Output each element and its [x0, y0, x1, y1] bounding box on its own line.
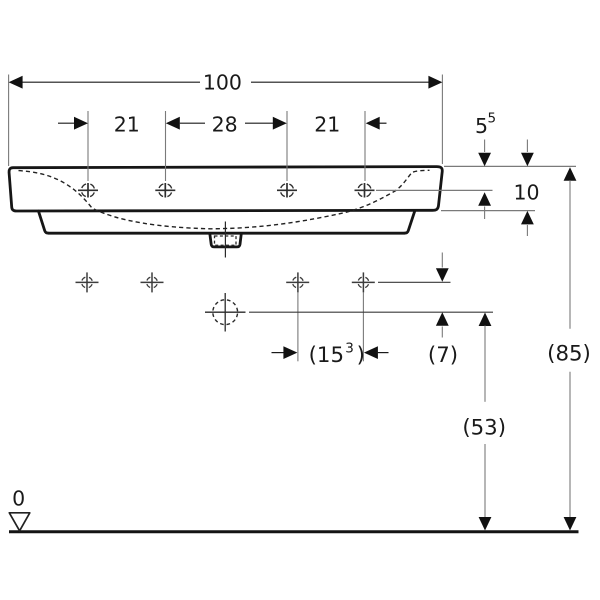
svg-text:(53): (53)	[462, 415, 506, 440]
svg-text:0: 0	[12, 486, 25, 510]
svg-text:10: 10	[513, 180, 539, 204]
svg-text:(15: (15	[309, 343, 344, 368]
svg-text:28: 28	[212, 112, 238, 136]
svg-text:100: 100	[203, 70, 242, 94]
svg-text:): )	[357, 343, 365, 368]
svg-text:3: 3	[345, 341, 354, 357]
svg-text:(7): (7)	[428, 343, 458, 368]
svg-text:21: 21	[114, 112, 140, 136]
svg-text:5: 5	[488, 111, 497, 127]
svg-text:21: 21	[314, 112, 340, 136]
svg-text:(85): (85)	[547, 341, 591, 366]
svg-text:5: 5	[475, 114, 488, 138]
